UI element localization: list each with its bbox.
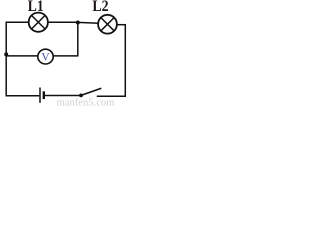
svg-text:V: V (41, 52, 50, 64)
switch pivot (79, 94, 83, 98)
wire: battery to switch pivot (45, 95, 82, 97)
wire: left vertical (5, 22, 7, 97)
wire: bottom left to battery (6, 95, 40, 97)
battery cell: short thick plate (-) (43, 91, 45, 99)
wire: L2 to top-right corner (116, 24, 126, 26)
wire: right vertical (124, 24, 126, 97)
svg-text:manfen5.com: manfen5.com (57, 98, 116, 107)
node: junction on top wire (76, 21, 80, 25)
wire: voltmeter branch vertical (junction to voltmeter) (77, 22, 79, 57)
node: junction on left wire (4, 52, 8, 56)
switch lever (81, 88, 101, 95)
lamp L2 (98, 15, 117, 34)
wire: voltmeter branch horizontal (6, 55, 78, 57)
svg-text:L1: L1 (28, 0, 44, 15)
wire: switch to bottom-right corner (97, 95, 126, 97)
lamp L1 (29, 13, 48, 32)
wire: top horizontal right (junction to L2) (78, 21, 99, 24)
voltmeter V (38, 49, 53, 64)
svg-text:L2: L2 (92, 0, 108, 15)
wire: top horizontal left (battery + to L1 to junction) (6, 21, 79, 23)
battery cell: long plate (+) (39, 88, 41, 103)
